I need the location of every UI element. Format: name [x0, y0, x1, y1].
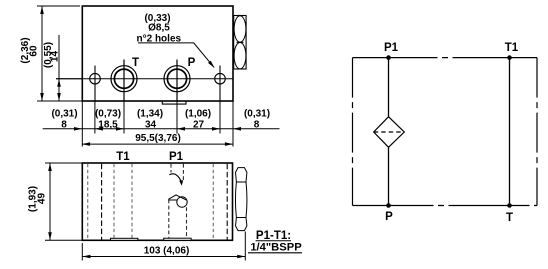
svg-text:103 (4,06): 103 (4,06) — [144, 246, 190, 257]
svg-text:18,5: 18,5 — [98, 119, 118, 130]
extension of centerline — [56, 78, 82, 80]
node P — [386, 203, 391, 208]
arrowheads row1 — [74, 127, 241, 131]
block body outline — [82, 6, 233, 101]
curved flow arrow at P1 — [169, 174, 181, 182]
port P — [164, 60, 190, 102]
hidden lines: black dashed — [102, 164, 228, 240]
check valve poppet (hidden detail) — [168, 195, 187, 207]
side plug (hex fitting seen from side, right face of block) — [234, 16, 246, 70]
bottom tab under port P — [162, 101, 186, 104]
svg-text:T1: T1 — [116, 151, 130, 163]
node T1 — [507, 55, 512, 60]
svg-text:27: 27 — [193, 119, 205, 130]
svg-text:14: 14 — [50, 51, 61, 63]
mounting hole (left) — [90, 66, 101, 102]
arrowheads 60 — [40, 6, 44, 101]
arrowheads 14 — [57, 79, 61, 101]
filter F1 — [374, 117, 405, 148]
svg-text:49: 49 — [37, 193, 48, 205]
svg-text:95,5(3,76): 95,5(3,76) — [135, 133, 181, 144]
arrowheads 95,5 — [82, 142, 233, 146]
arrowheads 103 — [82, 255, 245, 259]
svg-text:8: 8 — [61, 119, 67, 130]
svg-text:(0,31): (0,31) — [244, 109, 270, 120]
underline of 1/4"BSPP — [248, 252, 302, 254]
svg-text:34: 34 — [145, 119, 157, 130]
horizontal centerline through ports — [56, 78, 233, 80]
T1-T line — [509, 58, 511, 206]
svg-text:8: 8 — [254, 119, 260, 130]
svg-text:P1: P1 — [384, 42, 399, 54]
block outline — [82, 163, 232, 240]
svg-text:P1: P1 — [169, 151, 184, 163]
P1 line upper — [388, 58, 390, 117]
extension line bottom — [37, 100, 82, 102]
dimension line 60 — [41, 6, 43, 101]
svg-text:P: P — [188, 57, 196, 69]
dimension line 95,5 — [82, 143, 233, 145]
hidden bore of P1 (dark dashed) — [169, 164, 187, 240]
mounting hole (right) — [215, 66, 226, 102]
node T — [507, 203, 512, 208]
svg-text:T: T — [132, 57, 139, 69]
extension lines row1 — [82, 102, 233, 147]
hidden lines: gray dashed — [88, 164, 214, 240]
underline of P1-T1: — [256, 240, 291, 242]
svg-text:P: P — [385, 211, 393, 223]
dimension line 14 — [58, 35, 60, 101]
extension line top — [45, 162, 82, 164]
enclosure boundary (dash-dot) — [353, 58, 538, 206]
extension line bottom — [45, 239, 82, 241]
svg-text:(0,31): (0,31) — [51, 109, 77, 120]
port T — [111, 60, 137, 102]
svg-text:P1-T1:: P1-T1: — [256, 230, 291, 242]
dimension 103: extension + line — [82, 232, 245, 261]
P line lower — [388, 147, 390, 205]
node P1 — [386, 55, 391, 60]
svg-text:1/4"BSPP: 1/4"BSPP — [250, 241, 302, 253]
mounting pads on bottom face — [111, 238, 192, 240]
dimension line 49 — [49, 163, 51, 240]
dimension line row1 — [43, 128, 280, 130]
svg-text:T1: T1 — [505, 42, 519, 54]
svg-text:(0,73): (0,73) — [95, 109, 121, 120]
arrowheads 49 — [48, 163, 52, 240]
leader line to right mounting hole — [138, 43, 214, 67]
hex plug on right face (side view) — [235, 168, 247, 231]
svg-text:Ø8,5: Ø8,5 — [148, 22, 170, 33]
svg-text:T: T — [506, 212, 513, 224]
svg-text:(1,06): (1,06) — [185, 109, 211, 120]
extension line top — [37, 5, 80, 7]
svg-text:(1,34): (1,34) — [137, 109, 163, 120]
svg-text:60: 60 — [29, 45, 40, 57]
